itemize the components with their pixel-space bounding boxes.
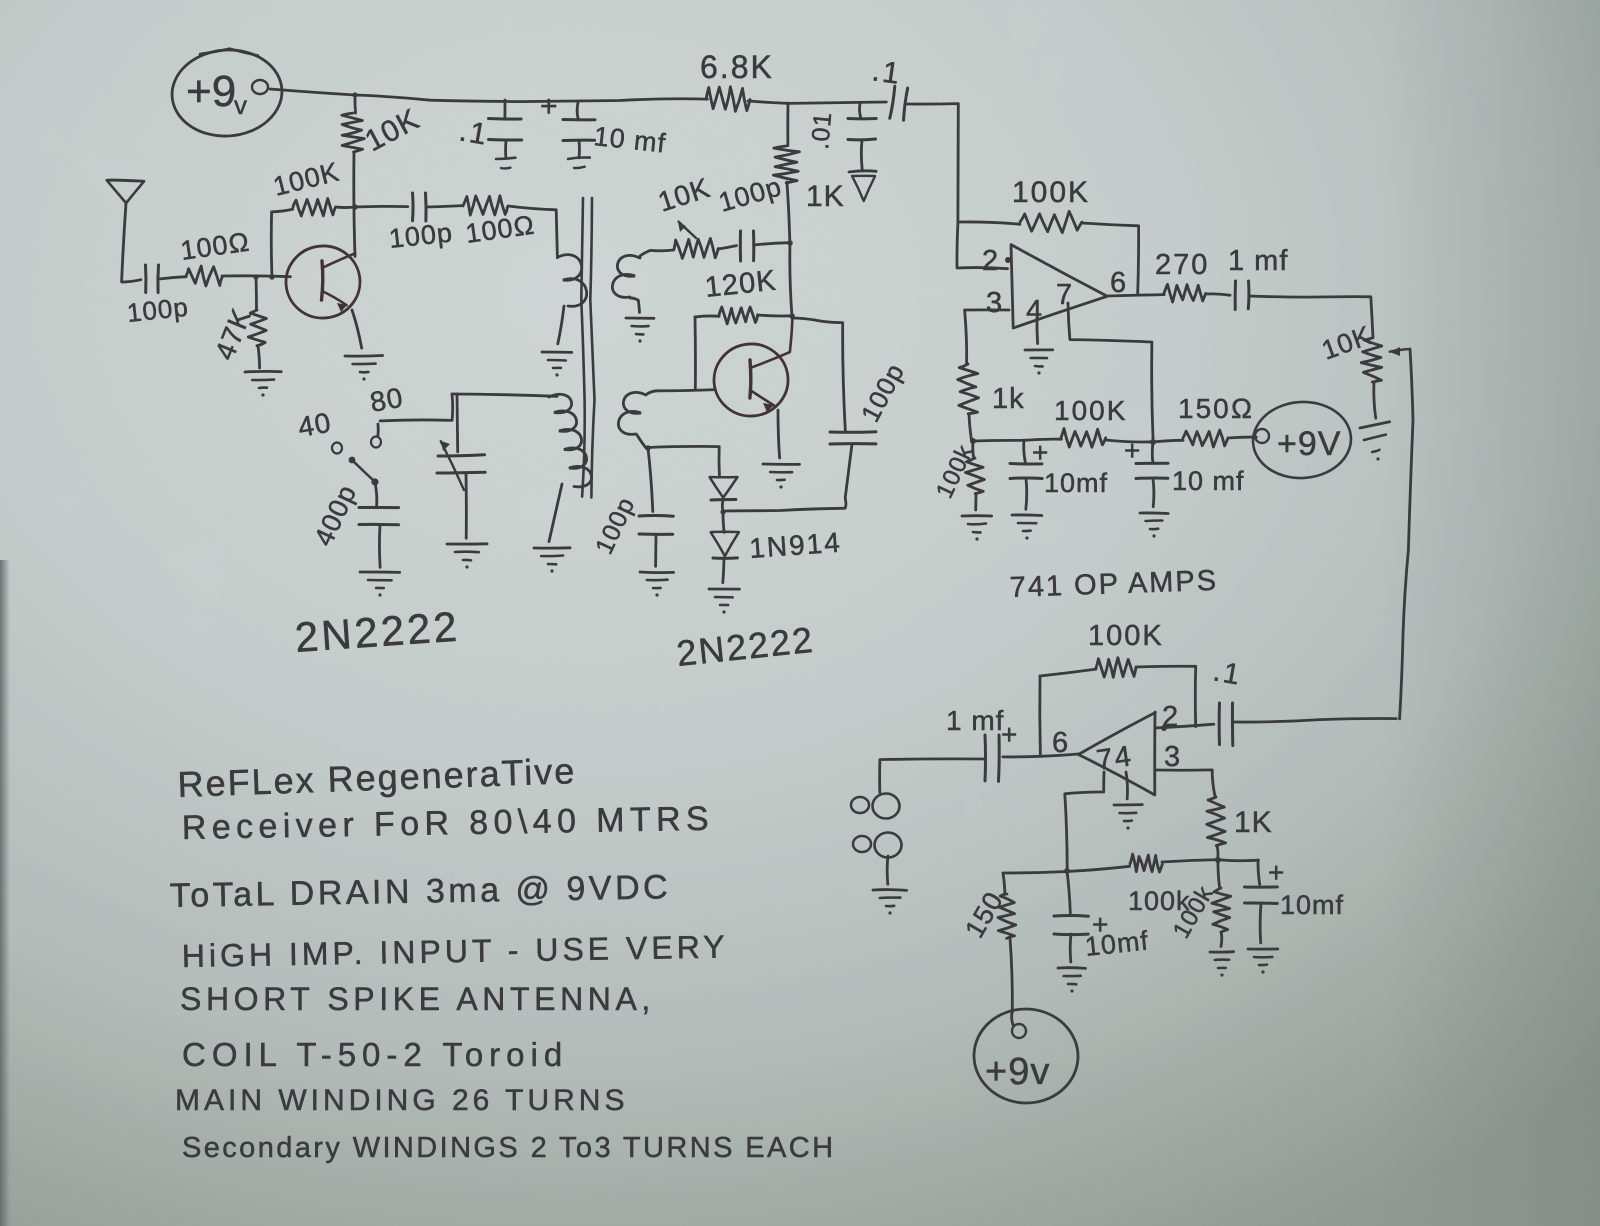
wire 6.8K to .1 cap xyxy=(748,101,886,103)
svg-text:74: 74 xyxy=(1095,740,1135,777)
bottom rail wire xyxy=(973,439,1061,441)
ground (10mf 1) xyxy=(1012,514,1042,517)
U2 bottom rail xyxy=(1003,866,1130,873)
resistor 100k (U2 vertical) xyxy=(1218,860,1220,888)
ground (U2 10mf 2) xyxy=(1248,948,1278,951)
T1 secondary bottom coil xyxy=(618,392,646,434)
svg-text:SHORT SPIKE ANTENNA,: SHORT SPIKE ANTENNA, xyxy=(180,981,655,1017)
wire 120K node to 100p/diode branch xyxy=(792,318,845,430)
long wire pot wiper to lower stage xyxy=(1400,349,1413,719)
svg-text:1 mf: 1 mf xyxy=(1228,245,1288,277)
svg-text:100K: 100K xyxy=(1012,176,1090,209)
T1 secondary top coil xyxy=(612,255,640,297)
wire 10K to Q1 collector node xyxy=(354,152,355,256)
svg-text:.1: .1 xyxy=(457,114,491,152)
Q2 collector xyxy=(750,318,792,368)
svg-text:4: 4 xyxy=(1026,295,1044,327)
resistor 1K (vertical, from rail) xyxy=(786,103,789,146)
resistor 150ohm xyxy=(1153,440,1183,442)
resistor 150 (supply) xyxy=(1003,873,1005,894)
power source +9V (top-left) xyxy=(169,46,285,139)
capacitor 100p (regen) xyxy=(718,246,736,249)
svg-text:+: + xyxy=(540,90,560,123)
switch wiper arm xyxy=(349,457,356,464)
ground (U2 10mf 1) xyxy=(1058,966,1086,970)
capacitor 10mf (U2 #2) xyxy=(1258,860,1260,885)
wire U1 pin 3 xyxy=(965,310,1009,364)
svg-text:.1: .1 xyxy=(870,54,903,91)
potentiometer 10K (volume) xyxy=(1361,338,1382,382)
U2 pin 7 wire xyxy=(1065,772,1104,871)
wire pot bottom xyxy=(1374,382,1376,418)
capacitor 400p xyxy=(375,482,377,506)
wire .1 cap to op-amp U1 pin2 branch xyxy=(906,104,958,222)
resistor 100ohm (antenna series) xyxy=(159,277,186,279)
svg-text:+: + xyxy=(1124,435,1142,466)
svg-text:80: 80 xyxy=(368,382,406,418)
wire diode node to 100p xyxy=(723,508,845,511)
power +9V (U1 supply) xyxy=(1255,429,1269,443)
resistor 10K (Q1 collector load) xyxy=(354,95,357,113)
potentiometer 10K (regen) xyxy=(674,238,718,258)
diode D2 1N914 xyxy=(723,513,724,532)
svg-text:1K: 1K xyxy=(806,180,845,213)
ground (U2 100k) xyxy=(1210,950,1234,953)
U2 pin 3 wire xyxy=(1155,770,1215,798)
resistor 100k (vertical to gnd) xyxy=(971,441,975,458)
wire to T1 primary xyxy=(508,206,557,258)
wire antenna to 100p xyxy=(122,280,141,282)
svg-text:2: 2 xyxy=(982,245,1000,277)
wire Q1 emitter to ground xyxy=(352,310,362,348)
capacitor .1 (U2) xyxy=(1218,703,1221,745)
U1 output wire xyxy=(1107,295,1164,296)
capacitor 100p (antenna coupling) xyxy=(144,265,147,293)
transistor Q2 2N2222 xyxy=(710,340,791,419)
svg-text:100K: 100K xyxy=(1088,620,1164,652)
ground (pot) xyxy=(1360,422,1390,428)
capacitor 1mf xyxy=(1234,281,1237,310)
op-amp U1 triangle xyxy=(1011,245,1107,328)
svg-text:MAIN WINDING 26 TURNS: MAIN WINDING 26 TURNS xyxy=(175,1084,628,1117)
ground (10mf 2) xyxy=(1140,512,1168,515)
resistor 47K (Q1 base bias) xyxy=(255,277,258,310)
svg-text:+9v: +9v xyxy=(985,1051,1050,1093)
wire U2 output (pin6) xyxy=(1003,754,1078,757)
wire 100ohm to Q1 base xyxy=(222,274,290,278)
capacitor 100p (interstage) xyxy=(355,205,408,208)
svg-text:+9: +9 xyxy=(186,67,236,116)
ground (secondary top) xyxy=(626,317,654,320)
svg-text:3: 3 xyxy=(986,287,1004,319)
U1 pin 4 ground xyxy=(1036,318,1039,344)
svg-text:1 mf: 1 mf xyxy=(946,705,1004,736)
power +9v (U2 supply) xyxy=(1012,1012,1014,1025)
svg-text:Secondary WINDINGS 2 To3 TURN: Secondary WINDINGS 2 To3 TURNS EACH xyxy=(182,1132,835,1164)
svg-text:.01: .01 xyxy=(806,110,837,150)
op-amp U2 triangle (points left) xyxy=(1078,712,1155,795)
Q2 emitter with arrow xyxy=(750,390,774,405)
capacitor 10mf (U2 #1) xyxy=(1067,871,1070,913)
T1 main winding (26 turns) xyxy=(452,394,557,396)
ground (400p) xyxy=(360,571,400,574)
wire +9V to 6.8K xyxy=(270,89,707,102)
svg-text:40: 40 xyxy=(296,407,334,443)
resistor 100K (bottom) xyxy=(1061,429,1106,448)
resistor 100ohm (interstage) xyxy=(426,206,463,207)
transformer T1 core xyxy=(581,198,584,497)
svg-text:1N914: 1N914 xyxy=(748,527,842,564)
ground (100k) xyxy=(962,514,992,517)
wire secondary to 10K pot xyxy=(640,250,674,256)
ground (47K) xyxy=(245,370,281,373)
svg-text:+9V: +9V xyxy=(1277,425,1341,463)
resistor 6.8K xyxy=(706,87,750,112)
svg-text:270: 270 xyxy=(1155,249,1209,281)
wire to U1 pin 2 xyxy=(957,222,1008,269)
U2 pin 2 wire to .1 cap xyxy=(1155,724,1214,728)
wire Q2 emitter to ground xyxy=(778,410,780,458)
svg-text:COIL T-50-2 Toroid: COIL T-50-2 Toroid xyxy=(182,1036,568,1073)
ground (D2) xyxy=(709,588,739,591)
svg-text:1K: 1K xyxy=(1234,806,1273,839)
diode D1 1N914 xyxy=(710,477,738,498)
svg-text:100K: 100K xyxy=(1054,395,1127,426)
ground (variable cap) xyxy=(447,542,487,545)
capacitor 10mf #1 xyxy=(1024,440,1026,462)
ground (Q2 emitter) xyxy=(763,463,799,466)
capacitor 100p (detector) xyxy=(830,430,876,434)
svg-text:3: 3 xyxy=(1164,741,1182,773)
Q1 collector xyxy=(322,253,355,268)
svg-text:10mf: 10mf xyxy=(1044,468,1108,498)
transistor Q1 2N2222 xyxy=(282,242,363,321)
ground (T1 primary top) xyxy=(542,351,572,354)
node top rail / 10K branch xyxy=(352,92,357,97)
U2 pin 4 ground xyxy=(1126,772,1128,799)
ground (phones) xyxy=(873,888,907,892)
antenna xyxy=(107,180,144,203)
resistor 1K (U2) xyxy=(1207,797,1226,846)
svg-text:6.8K: 6.8K xyxy=(700,49,774,85)
ground (main winding) xyxy=(534,546,570,549)
svg-text:1k: 1k xyxy=(992,383,1025,415)
resistor 1K (pin3) xyxy=(958,364,979,414)
Q1 emitter with arrow xyxy=(322,291,347,305)
svg-text:.1: .1 xyxy=(1211,655,1244,691)
capacitor 100p (base filter) xyxy=(648,448,653,512)
svg-text:+: + xyxy=(1268,857,1286,888)
jack circle 1 xyxy=(873,794,900,819)
U1 pin 7 wire xyxy=(1068,303,1153,441)
svg-text:150Ω: 150Ω xyxy=(1178,393,1254,424)
svg-text:10mf: 10mf xyxy=(1280,890,1344,920)
resistor 100K (U2 bottom) xyxy=(1130,854,1162,872)
wire secondary to Q2 base xyxy=(647,390,715,394)
variable capacitor (tuning) xyxy=(456,394,460,452)
capacitor .1 (top right coupling) xyxy=(890,86,908,120)
capacitor 1mf (U2 in) xyxy=(984,735,988,781)
resistor 270 xyxy=(1164,284,1206,302)
svg-text:v: v xyxy=(234,90,247,120)
ground (base filter) xyxy=(640,571,674,574)
svg-text:7: 7 xyxy=(1056,279,1074,311)
T1 primary top coil xyxy=(558,255,587,307)
ground (Q1 emitter) xyxy=(345,354,383,357)
svg-text:10 mf: 10 mf xyxy=(1172,466,1245,496)
wire 1mf to 10K pot xyxy=(1249,296,1373,338)
capacitor 10mf #2 xyxy=(1151,442,1155,463)
